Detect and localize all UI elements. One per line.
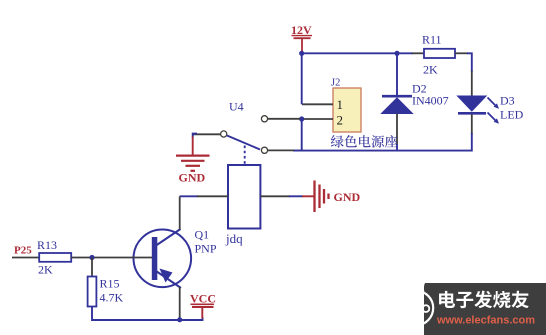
svg-text:2K: 2K <box>423 63 438 77</box>
wire: collector corner to relay (blue part) <box>180 195 198 197</box>
switch common contact <box>221 131 227 137</box>
svg-text:U4: U4 <box>229 100 244 114</box>
wire: collector to relay left (dark) <box>197 195 228 197</box>
diode D2 <box>382 82 449 114</box>
wire: pin2 junction down to bottom rail <box>293 119 302 151</box>
connector J2 <box>331 78 361 133</box>
svg-text:2K: 2K <box>38 263 53 277</box>
svg-text:R13: R13 <box>37 238 57 252</box>
wire: J2 pin1 lead (dark) <box>302 103 333 105</box>
wire: D2 lower lead (dark) <box>396 114 398 146</box>
label green power socket <box>331 135 398 148</box>
power flag VCC <box>190 292 216 319</box>
wire: D2 top lead from rail <box>396 53 398 96</box>
junction at 12V drop <box>299 51 304 56</box>
junction at D2 top <box>394 51 399 56</box>
wire: D2 lead to rail (blue) <box>396 144 398 151</box>
svg-text:4.7K: 4.7K <box>100 291 124 305</box>
junction at J2 pin2 <box>299 116 304 121</box>
dashed link switch to relay <box>244 146 246 167</box>
resistor R13 <box>37 238 71 277</box>
wire: bottom contact to rail (dark) <box>268 149 294 151</box>
wire: R15 bottom to rail <box>92 307 203 321</box>
wire: top rail from 12V to R11 <box>302 52 413 54</box>
wire: blue corner above left GND <box>193 134 197 138</box>
svg-text:J2: J2 <box>331 78 340 89</box>
switch contact bottom <box>261 147 267 153</box>
wire: switch common from GND (dark) <box>192 133 221 135</box>
watermark box <box>399 282 546 335</box>
wire: D3 upper lead (dark) <box>471 71 473 96</box>
svg-text:IN4007: IN4007 <box>412 94 449 108</box>
transistor Q1 <box>134 228 217 289</box>
svg-text:LED: LED <box>500 108 524 122</box>
junction emitter/rail <box>177 317 182 322</box>
svg-text:VCC: VCC <box>190 292 216 306</box>
wire: P25 to R13 (dark) <box>12 257 39 259</box>
LED D3 <box>458 94 524 124</box>
svg-text:R15: R15 <box>100 277 120 291</box>
wire: J2 pin2 lead (dark) <box>302 118 333 120</box>
resistor R15 <box>88 277 124 307</box>
wire: corner to D3 <box>467 53 472 72</box>
wire: relay right lead (dark) <box>260 195 290 197</box>
switch blade <box>227 136 260 150</box>
wire: R11 right lead (dark) <box>455 52 468 54</box>
svg-text:Q1: Q1 <box>195 228 210 242</box>
resistor R11 <box>422 33 455 77</box>
ground GND left <box>176 137 210 185</box>
wire: 12V rail drop to J2 pin1 <box>301 53 303 104</box>
wire: collector vertical (dark) <box>179 196 181 229</box>
svg-text:D3: D3 <box>500 94 515 108</box>
wire: top contact to pin2 junction (dark) <box>268 118 300 120</box>
svg-text:www.elecfans.com: www.elecfans.com <box>436 315 535 327</box>
wire: blue segment to right GND <box>289 195 303 197</box>
svg-text:GND: GND <box>179 171 206 185</box>
relay jdq <box>225 165 260 246</box>
svg-text:2: 2 <box>337 113 344 128</box>
wire: D3 lower lead (dark) <box>471 114 473 134</box>
wire: R13 to base (dark) <box>71 257 152 259</box>
switch contact top <box>261 116 267 122</box>
svg-text:R11: R11 <box>422 33 442 47</box>
svg-text:GND: GND <box>334 190 361 204</box>
power flag 12V <box>291 23 312 53</box>
ground GND right (sideways) <box>302 181 361 213</box>
wire: D3 to bottom rail corner <box>293 133 472 151</box>
svg-text:PNP: PNP <box>195 242 217 256</box>
wire: junction down to R15 (dark) <box>91 258 93 277</box>
wire: emitter vertical (dark) <box>179 287 181 319</box>
svg-text:P25: P25 <box>14 245 32 257</box>
svg-text:1: 1 <box>337 97 344 112</box>
svg-text:jdq: jdq <box>225 231 243 246</box>
wire: R11 left lead (dark) <box>412 52 424 54</box>
junction base/R15 <box>89 255 94 260</box>
